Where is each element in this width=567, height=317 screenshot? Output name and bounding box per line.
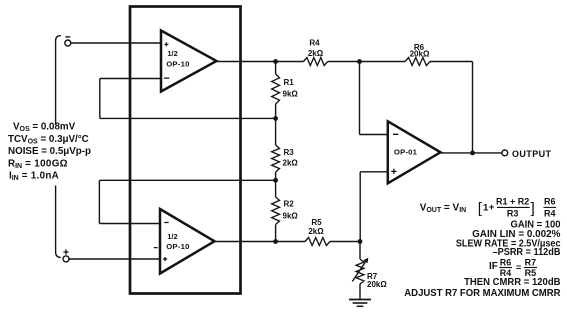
svg-text:OUTPUT: OUTPUT	[512, 149, 552, 159]
svg-text:NOISE = 0.5μVp-p: NOISE = 0.5μVp-p	[8, 146, 91, 157]
svg-text:2kΩ: 2kΩ	[283, 159, 299, 168]
svg-text:OP-01: OP-01	[394, 148, 418, 157]
svg-text:R3: R3	[284, 148, 295, 157]
svg-text:TCVOS​ = 0.3μV/°C: TCVOS​ = 0.3μV/°C	[8, 134, 89, 146]
svg-text:–PSRR = 112dB: –PSRR = 112dB	[493, 247, 561, 258]
svg-text:R3: R3	[507, 208, 519, 218]
svg-text:1/2: 1/2	[167, 49, 177, 58]
svg-text:]: ]	[531, 200, 535, 217]
svg-text:1/2: 1/2	[167, 232, 177, 241]
svg-text:20kΩ: 20kΩ	[367, 280, 387, 289]
svg-text:R5: R5	[311, 218, 322, 227]
svg-text:R1: R1	[284, 78, 295, 87]
svg-text:=: =	[516, 262, 521, 272]
svg-text:2kΩ: 2kΩ	[308, 49, 324, 58]
svg-text:R6: R6	[544, 197, 556, 207]
svg-text:R7: R7	[525, 258, 537, 268]
svg-text:9kΩ: 9kΩ	[283, 211, 299, 220]
svg-text:R1 + R2: R1 + R2	[496, 196, 529, 206]
svg-text:R6: R6	[500, 258, 512, 268]
svg-text:R2: R2	[284, 199, 295, 208]
svg-text:ADJUST R7 FOR MAXIMUM CMRR: ADJUST R7 FOR MAXIMUM CMRR	[404, 288, 561, 299]
svg-text:R5: R5	[525, 268, 537, 278]
svg-text:R4: R4	[309, 39, 320, 48]
svg-text:OP-10: OP-10	[166, 59, 189, 68]
svg-text:OP-10: OP-10	[166, 242, 189, 251]
svg-text:+: +	[489, 202, 495, 213]
svg-text:2kΩ: 2kΩ	[308, 227, 324, 236]
svg-text:R4: R4	[544, 208, 556, 218]
svg-text:THEN CMRR = 120dB: THEN CMRR = 120dB	[464, 277, 560, 288]
svg-text:9kΩ: 9kΩ	[283, 90, 299, 99]
svg-text:R4: R4	[500, 268, 512, 278]
svg-text:IF: IF	[489, 261, 498, 272]
svg-text:20kΩ: 20kΩ	[410, 49, 430, 58]
